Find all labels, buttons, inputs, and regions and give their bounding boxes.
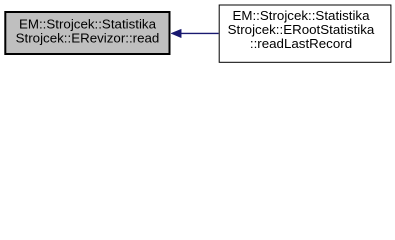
svg-text:::readLastRecord: ::readLastRecord — [250, 36, 352, 51]
svg-text:EM::Strojcek::Statistika: EM::Strojcek::Statistika — [232, 8, 370, 23]
svg-text:Strojcek::ERootStatistika: Strojcek::ERootStatistika — [228, 22, 375, 37]
edge arrow (caller to callee) — [171, 29, 219, 38]
svg-text:Strojcek::ERevizor::read: Strojcek::ERevizor::read — [16, 30, 160, 45]
node ERootStatistika::readLastRecord — [219, 5, 391, 62]
node ERevizor::read (current, gray) — [5, 12, 169, 54]
